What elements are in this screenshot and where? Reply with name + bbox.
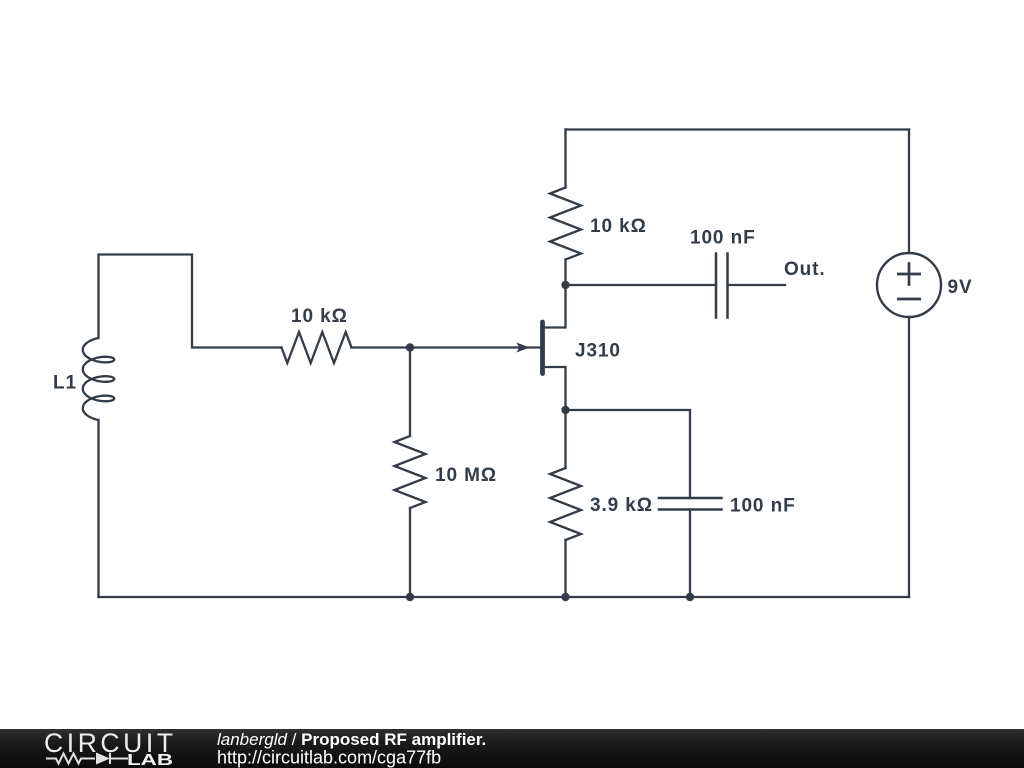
- wire: drain node to output cap: [566, 284, 717, 286]
- resistor 10k vertical (drain): [550, 188, 581, 260]
- svg-text:10 MΩ: 10 MΩ: [435, 465, 497, 486]
- transistor gate arrow: [516, 343, 529, 353]
- wire: node to 10M resistor: [409, 348, 411, 437]
- wire: JFET drain lead: [544, 285, 566, 328]
- svg-text:3.9 kΩ: 3.9 kΩ: [590, 495, 653, 516]
- capacitor 100nF output plates: [715, 254, 718, 318]
- wire: 3.9k resistor to ground rail: [564, 540, 566, 597]
- svg-text:10 kΩ: 10 kΩ: [291, 306, 348, 327]
- svg-text:LAB: LAB: [127, 752, 173, 768]
- resistor 10k horizontal (gate): [282, 332, 352, 363]
- wire: bottom ground rail: [99, 596, 910, 598]
- svg-text:10 kΩ: 10 kΩ: [590, 216, 647, 237]
- wire: 10M resistor to ground rail: [409, 508, 411, 597]
- wire: output cap to Out: [728, 284, 786, 286]
- node: ground junction cap: [686, 593, 694, 601]
- resistor 10M (gate bias): [395, 436, 426, 508]
- node: gate junction: [406, 343, 414, 351]
- wire: gate resistor to JFET gate: [352, 346, 541, 348]
- transistor J310 gate bar: [540, 322, 545, 374]
- svg-text:J310: J310: [575, 341, 621, 362]
- svg-text:http://circuitlab.com/cga77fb: http://circuitlab.com/cga77fb: [217, 748, 441, 768]
- capacitor 100nF bypass plates: [659, 497, 722, 500]
- node: ground junction 3.9k: [561, 593, 569, 601]
- wire: source node to 3.9k resistor: [564, 410, 566, 468]
- wire: 9V source to bottom rail: [908, 317, 910, 597]
- node: ground junction 10M: [406, 593, 414, 601]
- wire: JFET source lead: [544, 367, 566, 410]
- svg-text:lanbergld / Proposed RF amplif: lanbergld / Proposed RF amplifier.: [217, 730, 486, 749]
- svg-text:100 nF: 100 nF: [730, 496, 796, 517]
- wire: drain node up to 10k resistor: [564, 260, 566, 286]
- node: drain junction: [561, 281, 569, 289]
- wire: source node to bypass cap: [566, 410, 691, 498]
- wire: top supply rail: [566, 128, 910, 130]
- wire: bypass cap to ground rail: [689, 510, 691, 598]
- resistor 3.9k (source): [550, 468, 581, 540]
- inductor L1: [83, 338, 114, 420]
- wire: inductor top to gate resistor: [99, 255, 282, 348]
- voltage source V1 circle: [877, 253, 941, 317]
- node: source junction: [561, 406, 569, 414]
- voltage source minus sign: [898, 298, 919, 301]
- wire: top rail to 9V source: [908, 130, 910, 254]
- svg-text:L1: L1: [53, 373, 77, 394]
- wire: 10k resistor to top rail: [564, 130, 566, 188]
- svg-text:9V: 9V: [948, 277, 973, 298]
- wire: inductor bottom to ground rail: [97, 420, 99, 597]
- footer bar: [0, 729, 1024, 768]
- voltage source plus sign: [898, 264, 919, 285]
- svg-text:Out.: Out.: [784, 259, 826, 280]
- svg-text:100 nF: 100 nF: [690, 228, 756, 249]
- logo resistor-diode glyph: [46, 753, 128, 764]
